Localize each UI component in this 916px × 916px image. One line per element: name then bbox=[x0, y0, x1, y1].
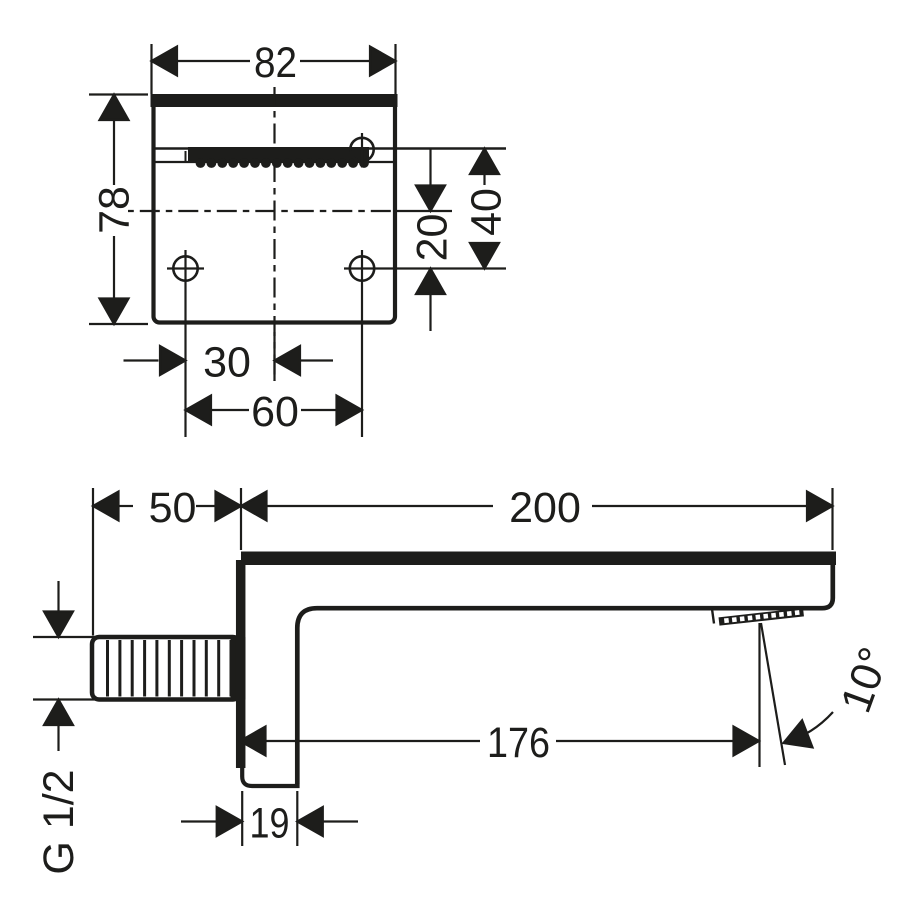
dimension 40 arrows bbox=[470, 149, 499, 175]
dimension 19 extension right bbox=[296, 791, 298, 846]
dimension 78 extension top bbox=[89, 93, 148, 95]
svg-text:60: 60 bbox=[251, 388, 299, 436]
svg-text:G 1/2: G 1/2 bbox=[35, 769, 83, 874]
dimension 200 arrows bbox=[241, 492, 267, 521]
wall plate wall face bbox=[236, 560, 246, 768]
nipple dim arrow up bbox=[57, 724, 59, 751]
dimension 176 line bbox=[266, 740, 480, 742]
angle reference line vertical bbox=[758, 623, 760, 767]
dimension 78 arrows bbox=[100, 95, 129, 121]
extension line right hole vertical bbox=[361, 250, 363, 437]
aerator bbox=[719, 608, 804, 626]
dimension 176 arrows bbox=[240, 727, 266, 756]
svg-text:19: 19 bbox=[250, 800, 290, 848]
dimension 20 tails bbox=[429, 149, 431, 186]
dimension 78 extension bottom bbox=[89, 323, 148, 325]
angle arc arrowhead bbox=[778, 720, 812, 756]
dimension 82 extension left bbox=[150, 44, 152, 94]
svg-text:20: 20 bbox=[409, 214, 457, 262]
dimension 50 arrows bbox=[93, 492, 119, 521]
thread lines bbox=[108, 640, 232, 697]
screw hole left bbox=[173, 256, 197, 280]
vertical centerline bbox=[273, 87, 275, 381]
dimension 50 line bbox=[119, 505, 133, 507]
screw hole left horizontal crosshair bbox=[167, 267, 204, 269]
extension line left hole vertical bbox=[184, 250, 186, 437]
top hole vertical crosshair bbox=[361, 133, 363, 168]
spout slot top line / extension line 40 bbox=[156, 147, 507, 150]
svg-text:82: 82 bbox=[254, 39, 297, 87]
svg-text:30: 30 bbox=[203, 339, 251, 387]
dimension 60 arrows bbox=[186, 396, 212, 425]
screw hole right bbox=[350, 256, 374, 280]
nipple dim extension top bbox=[33, 636, 95, 638]
nipple dim arrow down bbox=[57, 581, 59, 613]
svg-text:176: 176 bbox=[487, 719, 550, 767]
dimension 60 line bbox=[212, 409, 250, 411]
svg-text:10°: 10° bbox=[832, 641, 899, 719]
nipple hub junction bbox=[231, 637, 246, 700]
svg-text:200: 200 bbox=[509, 484, 581, 532]
slot tick bbox=[185, 151, 187, 162]
dimension 82 arrows bbox=[152, 47, 178, 76]
dimension 40 line bbox=[483, 174, 485, 185]
centerline bottom segment bbox=[273, 332, 275, 381]
dimension 82 line bbox=[177, 60, 250, 62]
dimension 20 arrows bbox=[416, 186, 445, 212]
horizontal centerline bbox=[128, 210, 397, 212]
dimension 82 extension right bbox=[394, 44, 396, 94]
dimension 200 line bbox=[266, 505, 493, 507]
svg-text:78: 78 bbox=[91, 186, 139, 234]
nipple dim extension bottom bbox=[33, 698, 95, 700]
spout body outline bbox=[297, 565, 833, 785]
extension line centerline right bbox=[397, 210, 452, 212]
dimension 50/200 extension middle bbox=[240, 488, 242, 550]
wall plate top bar bbox=[151, 94, 398, 107]
top hole bbox=[350, 138, 373, 161]
dimension 19 extension left bbox=[241, 791, 243, 846]
wall plate bottom bbox=[242, 764, 299, 786]
water guide black bar bbox=[188, 147, 369, 168]
screw hole right crosshair / extension line bbox=[344, 267, 506, 269]
aerator hook bbox=[712, 609, 714, 624]
dimension 78 line bbox=[113, 120, 115, 185]
dimension 30 tails bbox=[124, 359, 159, 361]
dimension 200 extension right bbox=[831, 488, 833, 550]
spout slot bottom line bbox=[156, 161, 394, 163]
dimension 50 extension left bbox=[92, 488, 94, 636]
wall plate outline bbox=[154, 97, 396, 323]
svg-text:50: 50 bbox=[149, 484, 197, 532]
dimension 19 tails bbox=[181, 820, 217, 822]
threaded nipple bbox=[92, 637, 240, 700]
angle arc leader bbox=[786, 712, 833, 742]
angle line 10 degrees bbox=[761, 623, 785, 765]
svg-text:40: 40 bbox=[463, 188, 511, 236]
spout top plate bbox=[241, 552, 836, 566]
dimension 30 arrows bbox=[160, 346, 186, 375]
dimension 19 arrows bbox=[217, 807, 243, 836]
